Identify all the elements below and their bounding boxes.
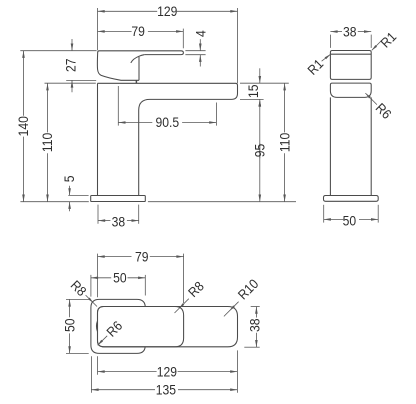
- body shoulder (side view): [330, 83, 371, 97]
- ext line side base right: [377, 205, 379, 223]
- dim line 90.5: [118, 122, 152, 124]
- ext line handle top: [20, 50, 96, 52]
- dim 27 upper shaft: [71, 39, 73, 51]
- dim 27 lower shaft: [71, 80, 73, 92]
- svg-text:140: 140: [16, 116, 32, 136]
- svg-text:95: 95: [252, 144, 268, 158]
- svg-text:15: 15: [246, 84, 262, 98]
- svg-text:50: 50: [113, 270, 127, 286]
- R1 right leader: [372, 41, 382, 51]
- svg-text:129: 129: [157, 3, 177, 19]
- ext line plan top edge: [66, 298, 89, 300]
- handle left edge and underside: [97, 52, 139, 80]
- dim line 50 plan: [91, 277, 111, 279]
- side column left edge: [329, 97, 331, 195]
- svg-text:90.5: 90.5: [156, 115, 180, 131]
- dim line 79 plan: [98, 256, 132, 258]
- handle cap (side view): [330, 51, 371, 80]
- ext line side right: [370, 35, 372, 48]
- base plate (side view): [324, 196, 379, 202]
- R6 plan leader: [98, 336, 108, 345]
- dim line 110 side: [284, 83, 286, 132]
- dim line 129: [98, 10, 158, 12]
- svg-text:79: 79: [135, 249, 149, 265]
- ext line spout top / side body top: [240, 82, 289, 84]
- svg-text:38: 38: [112, 214, 126, 230]
- mounting surface line left segment: [20, 201, 88, 203]
- lever pivot bump (plan view): [96, 321, 97, 332]
- ext line lever top: [185, 50, 205, 52]
- handle cap R1 edge line: [330, 53, 371, 55]
- ext line plan right (129/135): [236, 350, 238, 392]
- R1 left leader: [322, 54, 331, 61]
- ext line handle bottom: [66, 79, 96, 81]
- dim line 50 side: [324, 218, 344, 220]
- handle lever outline (plan view): [98, 307, 184, 347]
- dim line 79: [98, 30, 132, 32]
- svg-text:50: 50: [62, 319, 78, 333]
- ext line lever bottom: [185, 54, 205, 56]
- R8 lever leader: [175, 299, 189, 313]
- extension line right of 129 / spout tip: [237, 8, 239, 83]
- svg-text:5: 5: [61, 176, 77, 183]
- ext line plan 129 left: [97, 356, 99, 375]
- svg-text:129: 129: [157, 364, 177, 380]
- dim line 95: [259, 99, 261, 158]
- dim line 50 vertical plan: [69, 299, 71, 317]
- dimension 95 (underside height): [259, 99, 262, 106]
- R6 side leader: [365, 93, 377, 105]
- body column left edge: [97, 83, 99, 195]
- ext line plan lever right: [183, 254, 185, 303]
- ext line side base left: [323, 205, 325, 223]
- dim line 38 front: [98, 220, 110, 222]
- ext line plan spout bottom: [244, 346, 259, 348]
- svg-text:27: 27: [63, 58, 79, 72]
- svg-text:4: 4: [193, 30, 209, 37]
- ext line column left: [97, 205, 99, 224]
- svg-text:50: 50: [343, 213, 357, 229]
- dim line 38 plan: [255, 307, 257, 318]
- handle escutcheon (plan view): [91, 299, 145, 353]
- ext line plan 135 left: [90, 356, 92, 393]
- handle base step: [135, 80, 137, 83]
- dim 15 upper shaft: [259, 68, 261, 83]
- ext line spout underside: [240, 98, 264, 100]
- ext line plan spout top: [251, 306, 260, 308]
- dim line 110 front: [47, 83, 49, 132]
- dim 4 upper shaft: [199, 39, 201, 51]
- ext line body centerline: [117, 86, 119, 126]
- ext line body top (front): [45, 82, 96, 84]
- dim line 135 plan: [91, 389, 155, 391]
- ext line plan escutcheon right: [144, 275, 146, 296]
- ext line side left: [329, 35, 331, 48]
- svg-text:110: 110: [277, 133, 293, 152]
- handle lever (front view): [98, 51, 184, 55]
- handle rear edge: [138, 57, 140, 81]
- ext line column right: [138, 205, 140, 224]
- dim 5 lower shaft: [69, 202, 71, 212]
- handle rear fold line: [131, 55, 144, 63]
- ext line plan bottom edge: [66, 352, 89, 354]
- R8 escutcheon leader: [86, 295, 97, 306]
- svg-text:38: 38: [343, 24, 357, 40]
- dim line 140: [23, 51, 25, 116]
- extension line right of 79: [182, 29, 184, 49]
- body and spout silhouette (plan view): [98, 307, 238, 347]
- base plate (front view): [91, 196, 146, 202]
- extension line left (129/79): [97, 8, 99, 50]
- ext line plan body left: [97, 254, 99, 298]
- dim line 38 side: [330, 31, 342, 33]
- mounting surface line right segment: [148, 201, 296, 203]
- ext line plan escutcheon left: [90, 275, 92, 297]
- svg-text:135: 135: [156, 382, 176, 398]
- R10 leader: [224, 302, 239, 317]
- svg-text:38: 38: [247, 318, 263, 332]
- svg-text:79: 79: [131, 24, 145, 40]
- dim 5 upper shaft: [69, 186, 71, 196]
- svg-text:110: 110: [40, 133, 56, 152]
- side column right edge: [370, 97, 372, 195]
- dim line 129 plan: [98, 371, 157, 373]
- spout top, tip and underside; column right edge: [98, 83, 238, 195]
- ext line aerator: [215, 103, 217, 126]
- ext line base top: [68, 194, 88, 196]
- dim 4 lower shaft: [199, 55, 201, 67]
